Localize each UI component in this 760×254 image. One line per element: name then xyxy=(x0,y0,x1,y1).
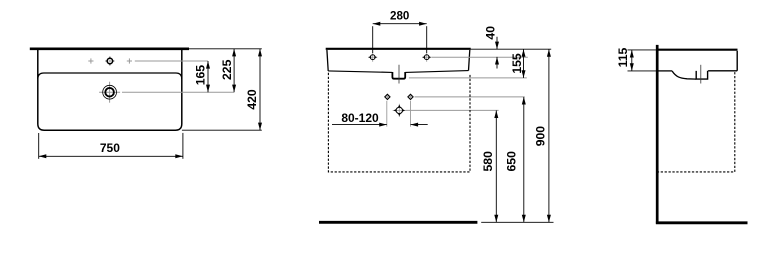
svg-text:420: 420 xyxy=(245,89,259,110)
svg-text:80-120: 80-120 xyxy=(341,111,379,125)
svg-text:750: 750 xyxy=(100,141,120,155)
svg-text:650: 650 xyxy=(505,151,519,172)
svg-text:900: 900 xyxy=(534,126,548,147)
svg-text:225: 225 xyxy=(220,59,234,80)
svg-text:40: 40 xyxy=(484,26,498,40)
svg-text:115: 115 xyxy=(616,47,630,67)
svg-text:280: 280 xyxy=(390,10,409,23)
svg-text:165: 165 xyxy=(193,65,207,86)
svg-text:580: 580 xyxy=(481,151,495,172)
svg-text:155: 155 xyxy=(510,53,524,74)
